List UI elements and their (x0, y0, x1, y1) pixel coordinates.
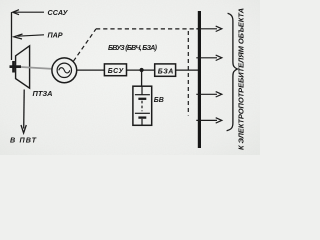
generator G~ (52, 58, 77, 83)
busbar (198, 11, 201, 148)
svg-text:ПТЗА: ПТЗА (33, 89, 53, 98)
battery symbol (135, 86, 150, 125)
feeder arrow 2 (196, 55, 222, 60)
shaft coupling (10, 61, 22, 73)
input arrow ССАУ (13, 10, 44, 15)
svg-text:БСУ: БСУ (108, 68, 125, 75)
svg-text:В ПВТ: В ПВТ (10, 135, 37, 144)
wire junction to БВ (141, 70, 143, 86)
svg-text:БЗА: БЗА (158, 68, 174, 75)
turbine ПТЗА (16, 46, 30, 88)
battery block БВ (133, 86, 152, 125)
feeder arrow 3 (196, 92, 222, 97)
wire БСУ to БЗА (127, 69, 155, 71)
output arrow В ПВТ (21, 90, 26, 134)
shaft to generator (21, 67, 53, 69)
wire ССАУ input corner vertical (11, 12, 13, 60)
feeder arrow 4 (196, 118, 222, 123)
svg-text:ССАУ: ССАУ (48, 8, 69, 17)
input arrow ПАР (14, 34, 44, 39)
dashed control line generator to busbar (73, 29, 198, 61)
svg-text:БВУЗ (БВЧ, БЗА): БВУЗ (БВЧ, БЗА) (108, 45, 158, 52)
dashed boundary БВУЗ right edge (187, 31, 189, 116)
block БСУ (104, 64, 126, 76)
svg-text:К ЭЛЕКТРОПОТРЕБИТЕЛЯМ ОБЪЕКТА: К ЭЛЕКТРОПОТРЕБИТЕЛЯМ ОБЪЕКТА (237, 8, 246, 150)
svg-text:БВ: БВ (154, 97, 164, 104)
feeder arrow 1 (196, 26, 222, 31)
junction (140, 68, 144, 72)
wire БЗА to busbar (176, 69, 199, 71)
svg-text:ПАР: ПАР (48, 31, 63, 40)
wire generator to БСУ (77, 69, 105, 71)
block БЗА (155, 64, 176, 76)
brace (227, 13, 238, 130)
